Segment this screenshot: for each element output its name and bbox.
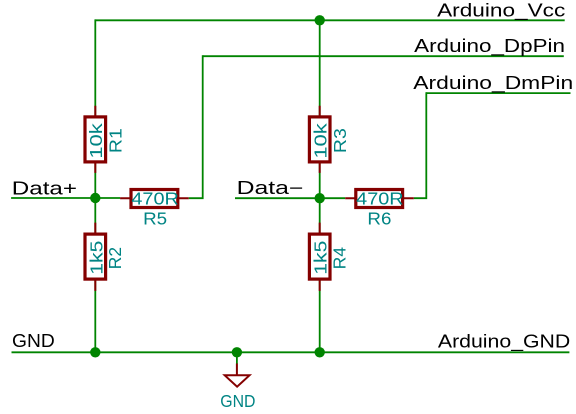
junction Vcc/R3 xyxy=(315,15,325,25)
resistor R4 xyxy=(309,223,349,291)
svg-text:R4: R4 xyxy=(330,247,350,269)
resistor R5 xyxy=(120,189,189,229)
wire Vcc horizontal xyxy=(95,19,564,21)
svg-text:470R: 470R xyxy=(131,189,179,209)
svg-text:470R: 470R xyxy=(356,189,404,209)
svg-text:R3: R3 xyxy=(330,128,350,153)
svg-text:1k5: 1k5 xyxy=(311,241,331,275)
svg-text:Arduino_DmPin: Arduino_DmPin xyxy=(413,73,573,94)
svg-text:R6: R6 xyxy=(367,209,391,229)
resistor R6 xyxy=(345,189,414,229)
svg-text:10k: 10k xyxy=(86,123,106,159)
wire left vertical bus xyxy=(94,19,96,352)
junction Data- xyxy=(315,193,325,203)
wire Data- horizontal xyxy=(235,197,345,199)
svg-text:GND: GND xyxy=(12,331,55,351)
svg-text:Arduino_Vcc: Arduino_Vcc xyxy=(437,1,565,22)
junction GND right xyxy=(315,347,325,357)
junction GND ground xyxy=(232,347,242,357)
wire right vertical bus xyxy=(319,20,321,352)
resistor R1 xyxy=(85,106,126,173)
junction Data+ xyxy=(90,193,100,203)
svg-text:Data+: Data+ xyxy=(12,178,77,198)
svg-text:R5: R5 xyxy=(143,209,167,229)
resistor R2 xyxy=(85,223,125,291)
ground xyxy=(220,364,255,411)
svg-text:Data−: Data− xyxy=(237,178,304,198)
svg-text:10k: 10k xyxy=(310,123,330,159)
junction GND left xyxy=(90,347,100,357)
svg-text:1k5: 1k5 xyxy=(86,241,106,275)
wire DmPin vertical drop xyxy=(414,92,427,198)
wire DpPin horizontal xyxy=(203,55,564,57)
wire ground stub xyxy=(236,352,238,364)
wire Data+ horizontal xyxy=(11,197,120,199)
resistor R3 xyxy=(309,106,350,173)
wire GND horizontal xyxy=(12,351,570,353)
svg-text:R1: R1 xyxy=(106,128,126,153)
svg-text:Arduino_GND: Arduino_GND xyxy=(438,332,570,353)
svg-text:GND: GND xyxy=(220,391,255,411)
svg-text:Arduino_DpPin: Arduino_DpPin xyxy=(414,36,565,57)
wire DmPin horizontal xyxy=(426,92,570,94)
wire DpPin vertical drop xyxy=(189,55,203,198)
svg-text:R2: R2 xyxy=(105,247,125,269)
